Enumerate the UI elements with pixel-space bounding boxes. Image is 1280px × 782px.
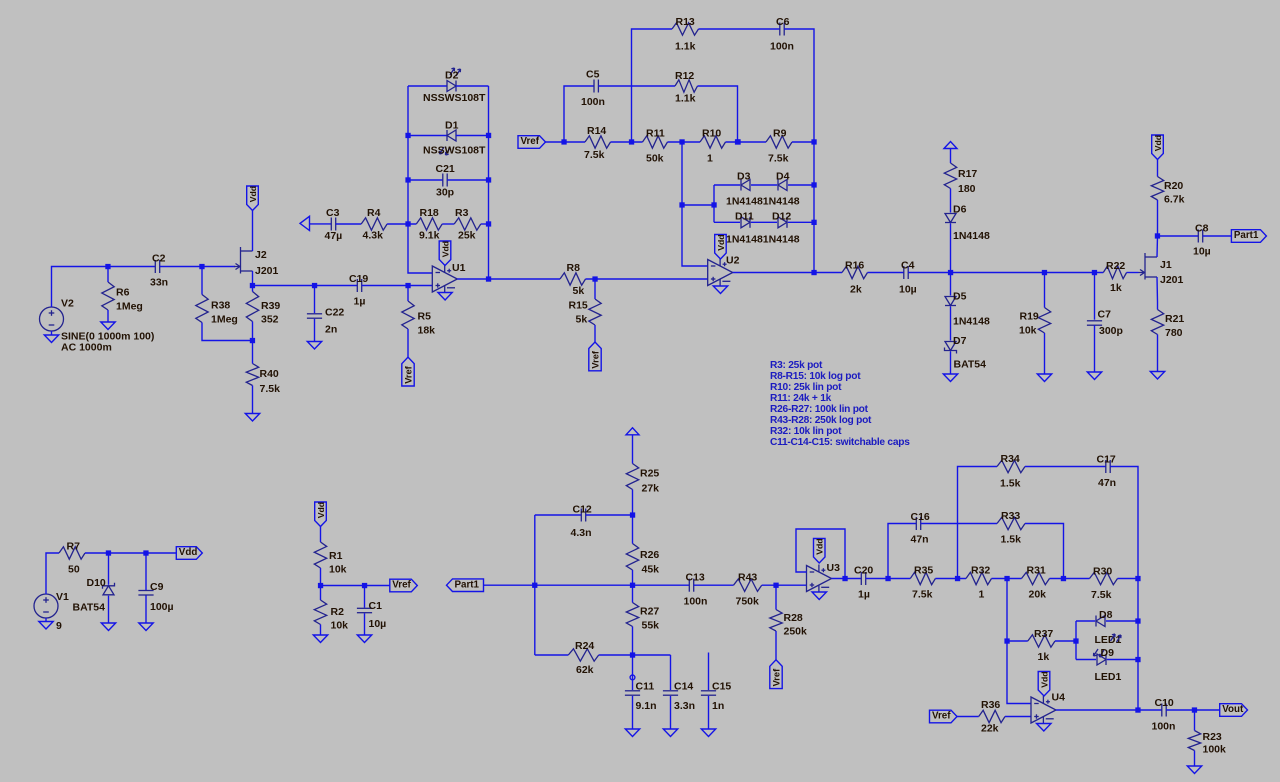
svg-text:1.5k: 1.5k (1001, 534, 1022, 546)
wire (908, 272, 1103, 274)
svg-text:C15: C15 (712, 681, 731, 693)
wire (252, 211, 254, 252)
wire (442, 223, 454, 225)
wire (1166, 709, 1220, 711)
svg-text:C11-C14-C15: switchable caps: C11-C14-C15: switchable caps (770, 437, 910, 448)
wire (408, 224, 432, 273)
capacitor C22 (307, 307, 345, 336)
svg-text:1N41481N4148: 1N41481N4148 (726, 196, 800, 208)
svg-text:33n: 33n (150, 277, 168, 289)
wire (832, 578, 862, 580)
junction (362, 583, 367, 588)
wire (456, 135, 489, 137)
wire (668, 141, 701, 143)
svg-text:R22: R22 (1106, 260, 1125, 272)
wire (682, 142, 708, 266)
wire (481, 223, 489, 225)
resistor R7 (59, 541, 85, 576)
junction (679, 202, 684, 207)
svg-text:Vdd: Vdd (316, 502, 326, 518)
wire (387, 223, 416, 225)
net flag Vdd (814, 538, 826, 563)
ground (245, 414, 259, 422)
capacitor C6 (770, 16, 794, 53)
svg-text:D7: D7 (953, 335, 967, 347)
svg-text:C21: C21 (436, 163, 455, 175)
wire (534, 515, 536, 655)
ground (713, 286, 728, 294)
wire (160, 266, 235, 268)
svg-text:45k: 45k (642, 564, 660, 576)
ground (101, 322, 115, 330)
wire (1106, 620, 1138, 622)
wire (107, 267, 109, 283)
svg-text:1k: 1k (1110, 282, 1122, 294)
svg-text:7.5k: 7.5k (768, 153, 789, 165)
svg-text:R21: R21 (1165, 313, 1184, 325)
svg-text:Vref: Vref (404, 365, 414, 383)
wire (252, 341, 254, 364)
svg-text:C10: C10 (1155, 697, 1174, 709)
svg-text:Vref: Vref (772, 668, 782, 686)
wire (714, 221, 740, 223)
svg-text:1.1k: 1.1k (675, 41, 696, 53)
wire (733, 272, 842, 274)
junction (105, 264, 110, 269)
wire (708, 653, 710, 691)
resistor R3 (454, 207, 481, 242)
wire (866, 578, 911, 580)
wire (535, 654, 569, 656)
junction (1192, 707, 1197, 712)
diode D11 (735, 211, 754, 228)
net flag Vdd (176, 547, 202, 560)
svg-text:Vdd: Vdd (815, 538, 825, 554)
ground (1037, 374, 1051, 382)
junction (1135, 576, 1140, 581)
svg-text:100n: 100n (1152, 721, 1176, 733)
net flag Vdd (439, 241, 451, 266)
wire (713, 185, 715, 222)
svg-text:R1: R1 (329, 550, 343, 562)
resistor R27 (626, 603, 659, 632)
junction (405, 177, 410, 182)
svg-text:R33: R33 (1001, 510, 1020, 522)
svg-text:R11: 24k + 1k: R11: 24k + 1k (770, 393, 832, 404)
svg-text:Vdd: Vdd (179, 547, 198, 558)
net flag Vref (402, 357, 414, 386)
svg-text:7.5k: 7.5k (260, 383, 281, 395)
resistor R25 (626, 464, 659, 495)
wire (85, 552, 176, 554)
wire (1005, 716, 1031, 718)
net flag Vref (518, 136, 546, 149)
wire (407, 180, 409, 224)
wire (1044, 333, 1046, 374)
junction (592, 276, 597, 281)
junction (948, 270, 953, 275)
wire (1157, 335, 1159, 372)
svg-text:100n: 100n (770, 41, 794, 53)
wire (564, 86, 594, 142)
svg-text:C8: C8 (1195, 223, 1209, 235)
wire (1075, 621, 1077, 660)
svg-text:300p: 300p (1099, 325, 1123, 337)
svg-text:10µ: 10µ (899, 284, 917, 296)
svg-text:U1: U1 (452, 262, 466, 274)
wire (594, 279, 596, 299)
svg-text:1µ: 1µ (858, 589, 870, 601)
wire (751, 184, 777, 186)
wire (1025, 466, 1106, 468)
svg-text:50k: 50k (646, 153, 664, 165)
junction (486, 177, 491, 182)
svg-text:C16: C16 (911, 511, 930, 523)
junction (842, 576, 847, 581)
svg-text:LED1: LED1 (1095, 671, 1122, 683)
svg-text:R14: R14 (587, 125, 606, 137)
wire (1110, 467, 1138, 579)
svg-text:R43-R28: 250k log pot: R43-R28: 250k log pot (770, 415, 872, 426)
svg-text:10k: 10k (329, 564, 347, 576)
wire (1137, 579, 1139, 711)
svg-text:Vout: Vout (1222, 704, 1244, 715)
net flag Vdd (247, 186, 259, 211)
resistor R2 (314, 600, 348, 632)
capacitor C16 (911, 511, 930, 546)
svg-text:D10: D10 (87, 577, 106, 589)
junction (199, 264, 204, 269)
wire (670, 655, 672, 690)
capacitor C20 (854, 565, 873, 601)
junction (1135, 618, 1140, 623)
wire (784, 29, 814, 273)
wire (320, 568, 322, 600)
wire (145, 596, 147, 624)
ground (943, 374, 957, 382)
svg-text:R39: R39 (261, 300, 280, 312)
ground (307, 342, 321, 350)
svg-text:R17: R17 (958, 168, 977, 180)
net flag Part1 (447, 579, 484, 592)
wire (314, 286, 316, 314)
svg-text:R8-R15: 10k log pot: R8-R15: 10k log pot (770, 371, 861, 382)
svg-text:100n: 100n (684, 596, 708, 608)
wire (320, 527, 322, 543)
svg-text:7.5k: 7.5k (584, 149, 605, 161)
wire (992, 578, 1022, 580)
ground (701, 729, 715, 737)
svg-text:180: 180 (958, 183, 976, 195)
svg-text:C14: C14 (674, 681, 693, 693)
svg-text:780: 780 (1165, 327, 1183, 339)
wire (586, 514, 633, 516)
svg-text:R30: R30 (1093, 566, 1112, 578)
wire (762, 584, 807, 586)
ground (357, 635, 371, 643)
wire (314, 319, 316, 342)
svg-text:D2: D2 (445, 70, 459, 82)
junction (1004, 576, 1009, 581)
diode D5 (945, 291, 990, 328)
capacitor C21 (436, 163, 455, 199)
wire (796, 529, 845, 579)
junction (1042, 270, 1047, 275)
ground (39, 622, 53, 630)
svg-text:9.1k: 9.1k (419, 230, 440, 242)
junction (532, 583, 537, 588)
wire (321, 585, 390, 587)
junction (318, 583, 323, 588)
svg-text:47n: 47n (1098, 477, 1116, 489)
svg-text:U4: U4 (1052, 692, 1066, 704)
net flag Vdd (1152, 135, 1164, 160)
capacitor C13 (684, 572, 708, 608)
svg-text:Vref: Vref (932, 711, 951, 722)
capacitor C14 (663, 681, 695, 713)
wire (792, 141, 814, 143)
wire (45, 618, 47, 622)
capacitor C7 (1087, 309, 1123, 338)
ground (1087, 372, 1101, 380)
diode D8 (1095, 609, 1122, 646)
wire (1194, 751, 1196, 767)
op-amp U1 (432, 262, 465, 293)
svg-text:R10: 25k lin pot: R10: 25k lin pot (770, 382, 842, 393)
wire (408, 85, 447, 87)
svg-text:R9: R9 (773, 128, 787, 140)
wire (1007, 640, 1028, 642)
svg-text:C1: C1 (369, 600, 383, 612)
wire (1006, 579, 1008, 642)
junction (561, 139, 566, 144)
svg-text:1N41481N4148: 1N41481N4148 (726, 234, 800, 246)
resistor R18 (416, 207, 442, 242)
wire (1076, 659, 1096, 661)
diode D9 (1095, 647, 1122, 683)
svg-text:30p: 30p (436, 187, 454, 199)
svg-text:R8: R8 (567, 262, 581, 274)
svg-text:D5: D5 (953, 291, 967, 303)
junction (773, 583, 778, 588)
junction (811, 220, 816, 225)
junction (735, 139, 740, 144)
svg-text:6.7k: 6.7k (1164, 194, 1185, 206)
diode value labels D11 D12 (726, 234, 800, 246)
svg-text:R27: R27 (640, 606, 659, 618)
junction (1073, 638, 1078, 643)
svg-text:R4: R4 (367, 207, 381, 219)
wire (1156, 236, 1159, 257)
resistor R33 (997, 510, 1025, 546)
ground (1037, 724, 1052, 732)
resistor R17 (944, 163, 977, 195)
wire (1094, 325, 1096, 372)
svg-text:352: 352 (261, 314, 279, 326)
ground (1187, 766, 1201, 774)
svg-text:D3: D3 (737, 171, 751, 183)
ground (812, 592, 827, 600)
junction (405, 133, 410, 138)
junction (1135, 657, 1140, 662)
svg-text:R28: R28 (784, 612, 803, 624)
svg-text:5k: 5k (573, 285, 585, 297)
wire (950, 189, 952, 213)
wire (546, 141, 586, 143)
svg-text:J201: J201 (255, 265, 279, 277)
op-amp U3 (807, 562, 841, 592)
wire (1107, 659, 1138, 661)
LED arrows D8 D9 (1094, 634, 1122, 657)
svg-text:R16: R16 (845, 260, 864, 272)
svg-text:Vdd: Vdd (1153, 135, 1163, 151)
svg-text:R23: R23 (1203, 731, 1222, 743)
svg-text:C2: C2 (152, 253, 166, 265)
wire (201, 267, 203, 295)
svg-text:R32: R32 (971, 565, 990, 577)
junction (955, 576, 960, 581)
svg-text:3.3n: 3.3n (674, 700, 695, 712)
resistor R23 (1188, 731, 1226, 756)
power up-arrow (944, 142, 957, 149)
svg-text:C7: C7 (1098, 309, 1112, 321)
wire (364, 613, 366, 635)
svg-text:R36: R36 (981, 699, 1000, 711)
junction (106, 550, 111, 555)
wire (788, 221, 814, 223)
wire (457, 278, 560, 280)
junction (405, 221, 410, 226)
wire (1076, 620, 1095, 622)
wire (935, 578, 966, 580)
svg-text:250k: 250k (784, 626, 808, 638)
wire (598, 85, 675, 87)
wire (1044, 273, 1046, 308)
resistor R34 (997, 453, 1025, 490)
diode D6 (945, 204, 990, 243)
resistor R26 (626, 544, 659, 576)
diode D2 (423, 68, 486, 104)
svg-text:10k: 10k (331, 620, 349, 632)
wire (632, 29, 673, 142)
resistor R24 (568, 640, 598, 676)
wire (632, 570, 634, 585)
wire (408, 135, 447, 137)
svg-text:27k: 27k (642, 483, 660, 495)
svg-text:J2: J2 (255, 249, 267, 261)
svg-text:C20: C20 (854, 565, 873, 577)
wire (108, 596, 110, 623)
net flag Vref (390, 579, 418, 592)
svg-text:2n: 2n (325, 324, 337, 336)
svg-text:1: 1 (707, 153, 713, 165)
capacitor C11 (625, 681, 657, 713)
svg-text:62k: 62k (576, 664, 594, 676)
svg-text:R2: R2 (331, 606, 345, 618)
wire (407, 286, 409, 302)
wire (456, 85, 489, 87)
svg-text:Vref: Vref (392, 580, 411, 591)
ground (313, 635, 327, 643)
resistor R12 (675, 70, 698, 105)
wire (1055, 640, 1076, 642)
svg-text:D11: D11 (735, 211, 754, 223)
svg-text:R11: R11 (646, 128, 665, 140)
svg-text:C17: C17 (1097, 454, 1116, 466)
junction (1061, 576, 1066, 581)
svg-text:AC 1000m: AC 1000m (61, 342, 112, 354)
wire (252, 386, 254, 414)
svg-text:C19: C19 (349, 273, 368, 285)
svg-text:Vref: Vref (591, 350, 601, 368)
svg-text:R10: R10 (702, 128, 721, 140)
resistor R20 (1151, 177, 1184, 206)
wire (408, 179, 443, 181)
wire (699, 28, 780, 30)
svg-text:R43: R43 (738, 572, 757, 584)
wire (1194, 710, 1196, 731)
svg-text:NSSWS108T: NSSWS108T (423, 92, 486, 104)
net flag Vref (930, 710, 958, 723)
junction (630, 512, 635, 517)
resistor R35 (910, 565, 935, 601)
svg-text:100µ: 100µ (150, 601, 174, 613)
svg-text:U2: U2 (726, 255, 740, 267)
svg-text:4.3n: 4.3n (571, 527, 592, 539)
wire (698, 86, 738, 142)
wire (1056, 709, 1162, 711)
wire (957, 716, 979, 718)
diode value labels D3 D4 (726, 196, 800, 208)
junction (1092, 270, 1097, 275)
svg-text:4.3k: 4.3k (363, 230, 384, 242)
svg-text:R15: R15 (569, 300, 588, 312)
wire (950, 224, 952, 273)
svg-text:9: 9 (56, 620, 62, 632)
wire (958, 467, 998, 579)
NC marker C11 (630, 675, 635, 680)
svg-text:47n: 47n (911, 534, 929, 546)
wire (632, 490, 634, 516)
capacitor C2 (150, 253, 168, 289)
svg-text:U3: U3 (827, 562, 841, 574)
svg-text:V1: V1 (56, 591, 69, 603)
junction (250, 283, 255, 288)
svg-text:7.5k: 7.5k (912, 589, 933, 601)
svg-text:R3: R3 (455, 207, 469, 219)
voltage source V1 (34, 591, 69, 632)
ground (1150, 372, 1164, 380)
svg-text:Vdd: Vdd (440, 241, 450, 257)
wire (632, 655, 634, 690)
capacitor C1 (357, 600, 386, 630)
svg-text:D12: D12 (772, 211, 791, 223)
junction (1004, 638, 1009, 643)
svg-text:1.1k: 1.1k (675, 93, 696, 105)
wire (682, 204, 714, 206)
svg-text:2k: 2k (850, 284, 862, 296)
svg-text:R31: R31 (1027, 565, 1046, 577)
svg-text:C22: C22 (325, 307, 344, 319)
resistor R10 (700, 128, 726, 165)
wire (950, 307, 952, 341)
diode D12 (772, 211, 791, 228)
svg-text:R40: R40 (260, 368, 279, 380)
svg-text:C9: C9 (150, 581, 164, 593)
wire (1007, 641, 1031, 704)
svg-text:1.5k: 1.5k (1000, 478, 1021, 490)
junction (143, 550, 148, 555)
